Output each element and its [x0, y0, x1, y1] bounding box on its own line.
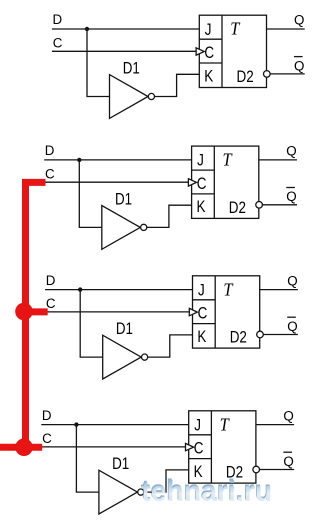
- svg-text:tehnari.ru: tehnari.ru: [141, 476, 272, 508]
